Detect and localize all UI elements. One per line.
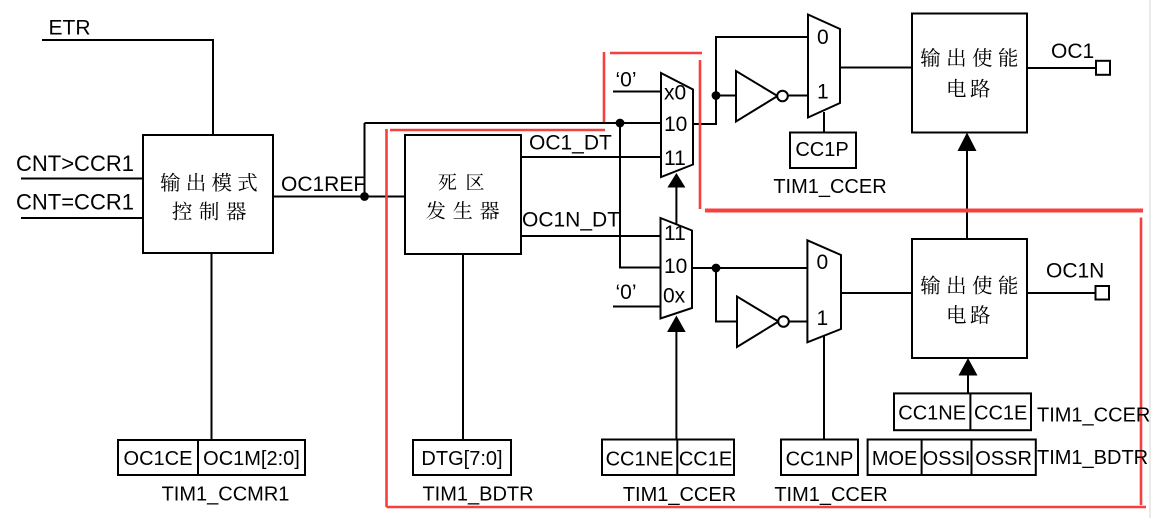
svg-text:1: 1 [817, 307, 829, 330]
svg-text:0: 0 [817, 26, 829, 49]
svg-text:‘0’: ‘0’ [616, 281, 637, 304]
svg-text:0x: 0x [663, 285, 686, 308]
svg-text:x0: x0 [664, 82, 686, 105]
svg-text:CNT=CCR1: CNT=CCR1 [16, 190, 134, 215]
svg-text:OSSI: OSSI [923, 448, 971, 470]
svg-text:TIM1_BDTR: TIM1_BDTR [1037, 447, 1148, 469]
svg-text:11: 11 [664, 222, 686, 245]
svg-text:TIM1_CCER: TIM1_CCER [623, 484, 736, 506]
svg-text:TIM1_CCER: TIM1_CCER [773, 176, 886, 198]
svg-text:DTG[7:0]: DTG[7:0] [421, 448, 502, 470]
svg-text:CC1P: CC1P [795, 139, 848, 161]
svg-text:11: 11 [664, 147, 686, 170]
svg-text:CNT>CCR1: CNT>CCR1 [16, 151, 134, 176]
svg-text:CC1NE: CC1NE [606, 449, 674, 471]
svg-text:TIM1_CCER: TIM1_CCER [1037, 405, 1150, 427]
svg-text:OSSR: OSSR [975, 448, 1032, 470]
svg-text:OC1N: OC1N [1046, 260, 1104, 283]
svg-text:CC1NE: CC1NE [898, 403, 966, 425]
svg-text:10: 10 [664, 113, 687, 136]
svg-text:0: 0 [817, 251, 829, 274]
svg-text:MOE: MOE [872, 448, 918, 470]
svg-text:TIM1_CCMR1: TIM1_CCMR1 [162, 484, 290, 506]
svg-text:‘0’: ‘0’ [616, 69, 637, 92]
svg-text:OC1M[2:0]: OC1M[2:0] [203, 448, 300, 470]
svg-text:TIM1_CCER: TIM1_CCER [774, 484, 887, 506]
svg-text:ETR: ETR [49, 17, 91, 40]
svg-text:OC1: OC1 [1051, 40, 1094, 63]
svg-text:1: 1 [817, 81, 829, 104]
svg-text:CC1NP: CC1NP [786, 449, 854, 471]
svg-text:10: 10 [664, 255, 687, 278]
svg-text:TIM1_BDTR: TIM1_BDTR [422, 484, 533, 506]
svg-text:OC1_DT: OC1_DT [529, 132, 612, 155]
svg-text:CC1E: CC1E [974, 403, 1027, 425]
svg-text:OC1N_DT: OC1N_DT [522, 209, 620, 232]
svg-text:OC1REF: OC1REF [281, 173, 366, 196]
svg-text:OC1CE: OC1CE [124, 448, 193, 470]
svg-text:CC1E: CC1E [679, 449, 732, 471]
